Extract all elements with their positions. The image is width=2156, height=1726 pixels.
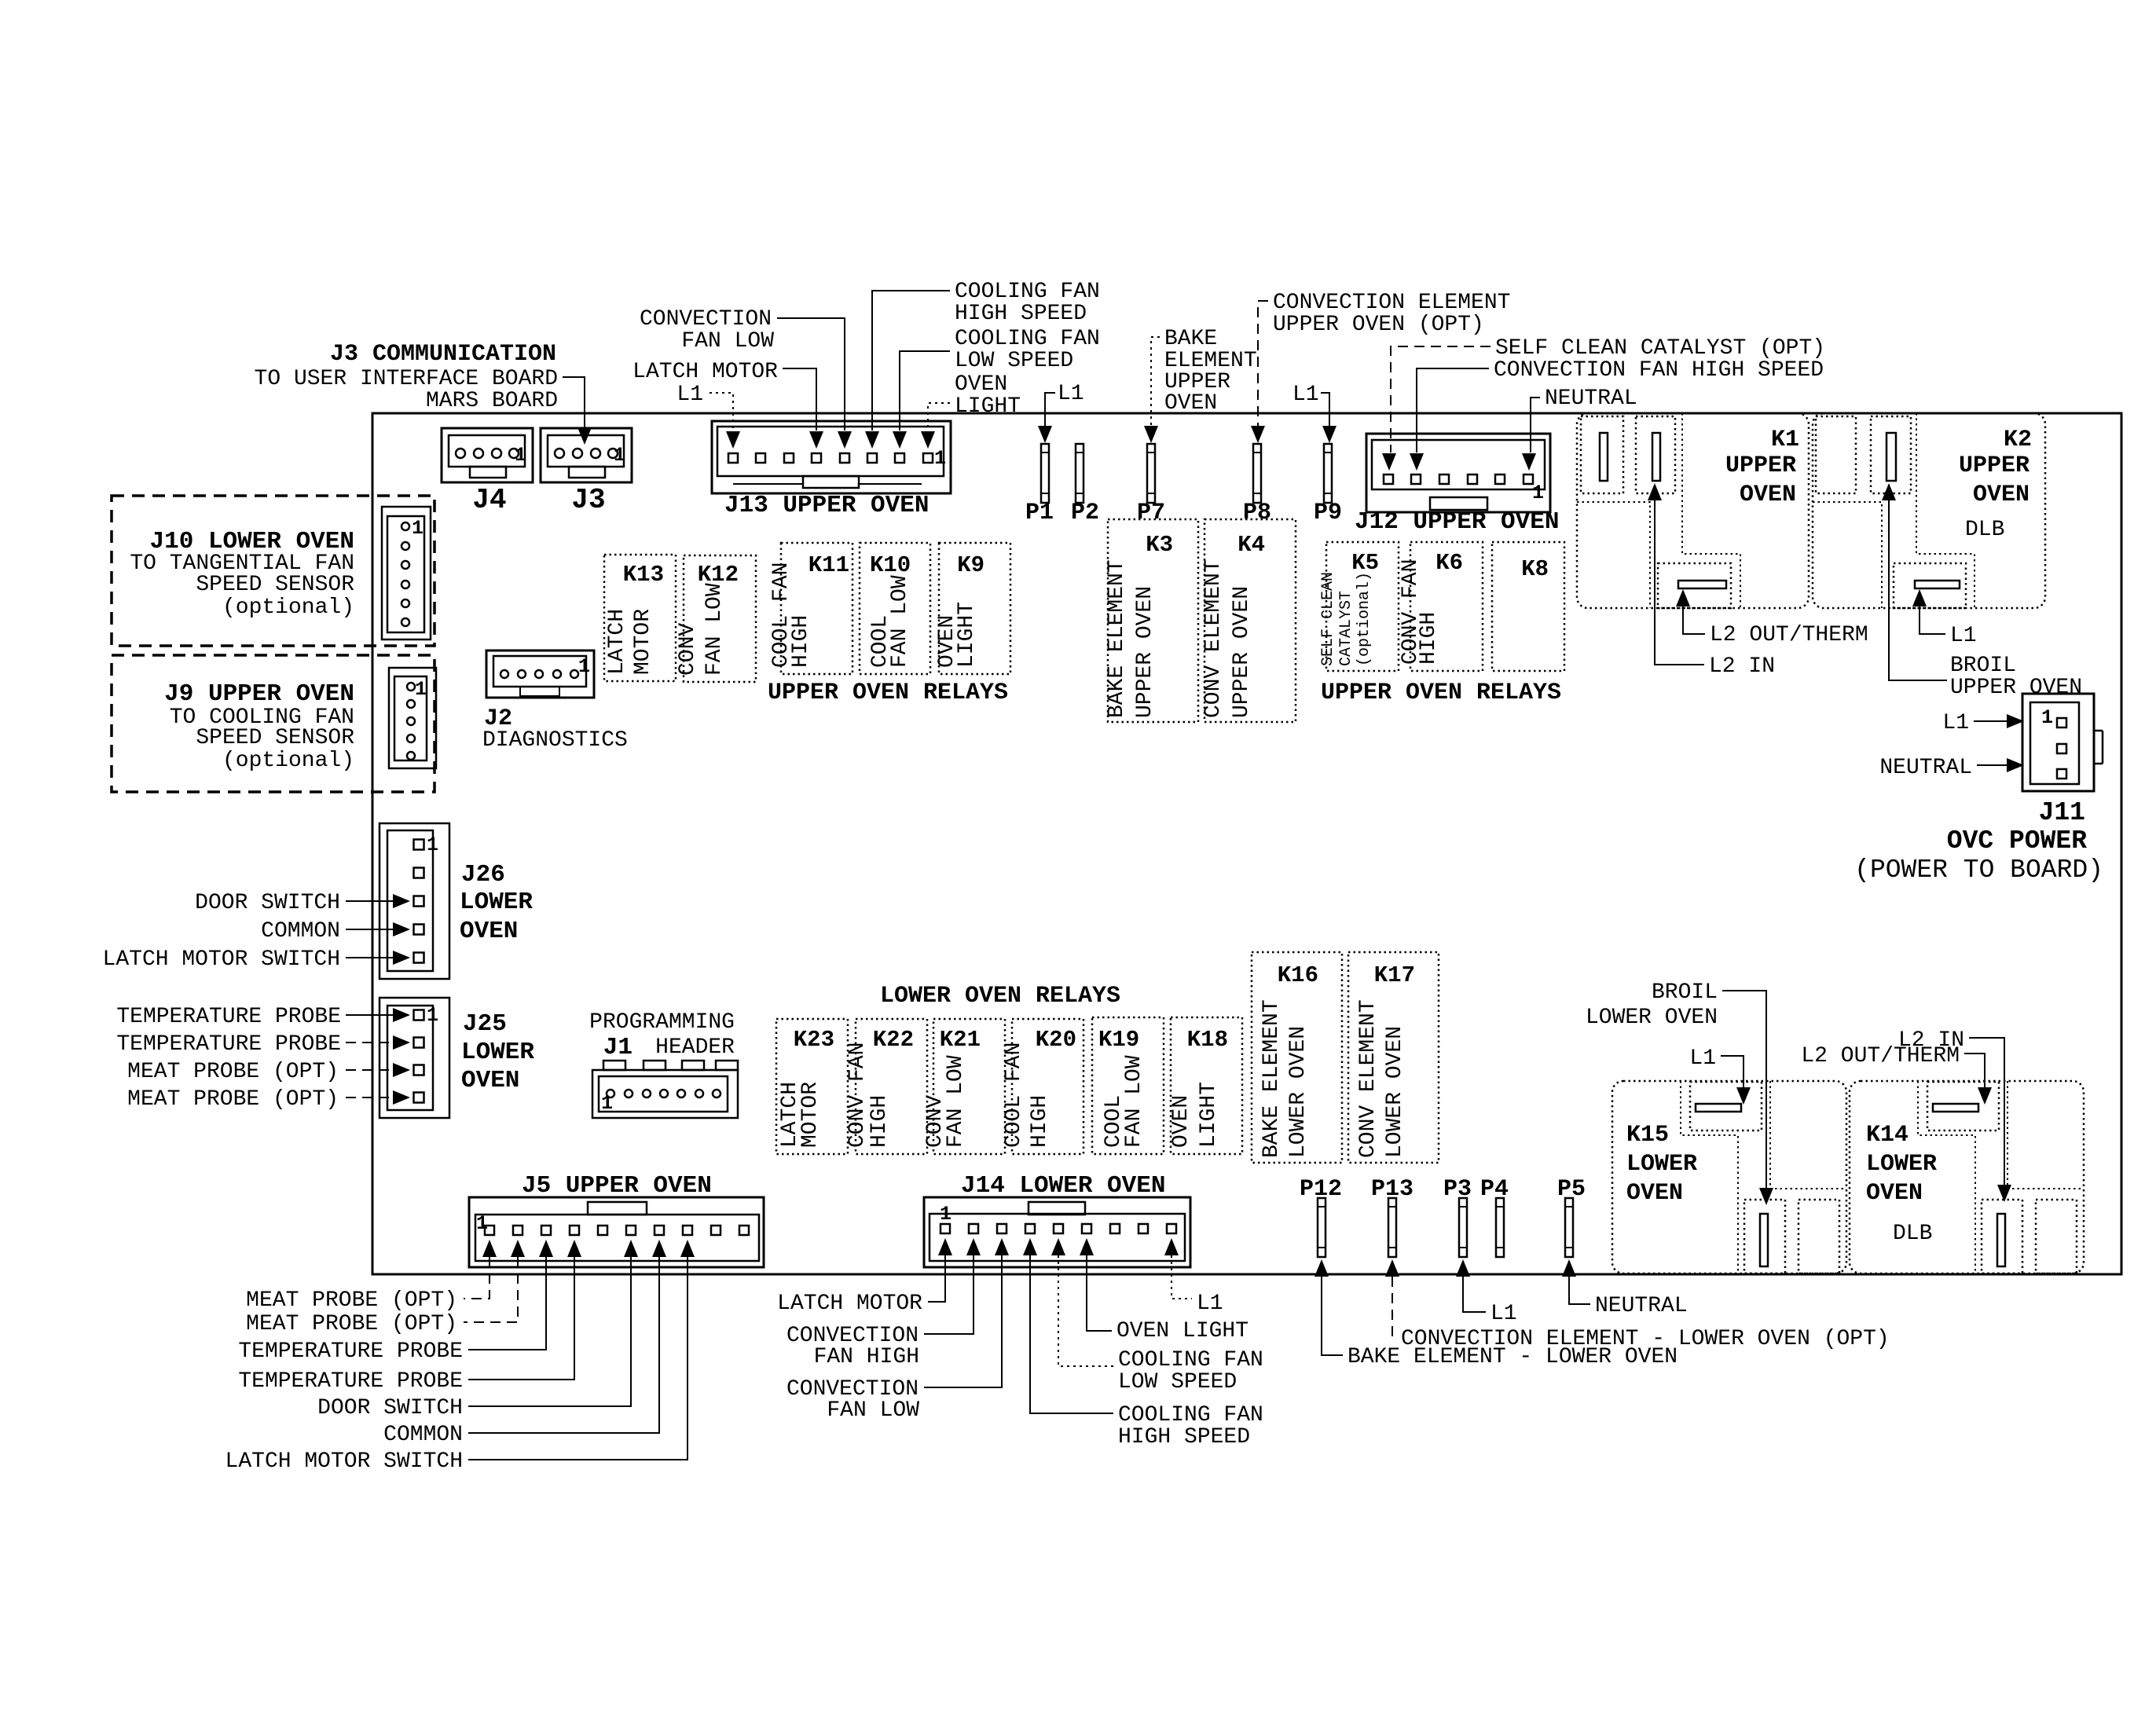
svg-text:1: 1 <box>578 655 590 678</box>
svg-text:P12: P12 <box>1300 1176 1342 1203</box>
svg-text:CONVECTION: CONVECTION <box>640 307 772 332</box>
svg-text:OVEN: OVEN <box>1740 482 1796 508</box>
svg-text:1: 1 <box>476 1212 488 1235</box>
svg-text:LOW SPEED: LOW SPEED <box>955 349 1073 373</box>
svg-text:HIGH: HIGH <box>1028 1095 1052 1148</box>
svg-text:(optional): (optional) <box>222 595 354 620</box>
svg-text:MEAT PROBE (OPT): MEAT PROBE (OPT) <box>127 1060 339 1084</box>
svg-text:SELF CLEAN: SELF CLEAN <box>1319 572 1337 666</box>
svg-text:UPPER OVEN RELAYS: UPPER OVEN RELAYS <box>768 680 1008 706</box>
svg-text:P4: P4 <box>1480 1176 1509 1203</box>
svg-text:1: 1 <box>515 444 526 467</box>
svg-text:1: 1 <box>2041 706 2053 729</box>
svg-text:K9: K9 <box>957 552 984 578</box>
svg-text:1: 1 <box>427 834 438 856</box>
svg-text:MARS BOARD: MARS BOARD <box>426 389 558 413</box>
svg-text:LOWER: LOWER <box>1866 1151 1937 1178</box>
test point P3 <box>1459 1198 1467 1257</box>
svg-text:1: 1 <box>934 447 946 470</box>
svg-text:P7: P7 <box>1137 500 1165 526</box>
svg-text:L2 OUT/THERM: L2 OUT/THERM <box>1710 623 1868 647</box>
svg-text:(optional): (optional) <box>222 749 354 773</box>
svg-text:K22: K22 <box>873 1027 914 1053</box>
svg-text:J12 UPPER OVEN: J12 UPPER OVEN <box>1355 508 1559 536</box>
svg-text:1: 1 <box>614 444 625 467</box>
svg-text:P1: P1 <box>1025 500 1054 526</box>
svg-text:UPPER OVEN: UPPER OVEN <box>1950 676 2082 700</box>
svg-text:TEMPERATURE PROBE: TEMPERATURE PROBE <box>116 1032 341 1057</box>
svg-text:BAKE ELEMENT: BAKE ELEMENT <box>1105 559 1129 718</box>
svg-text:K11: K11 <box>808 552 849 578</box>
svg-text:L1: L1 <box>1942 711 1969 735</box>
connector J2 DIAGNOSTICS <box>486 650 594 698</box>
svg-text:P2: P2 <box>1071 500 1099 526</box>
svg-text:DOOR SWITCH: DOOR SWITCH <box>195 891 340 915</box>
svg-text:K21: K21 <box>940 1027 981 1053</box>
relay K4 <box>1204 519 1296 722</box>
relay K11 <box>781 543 852 674</box>
connector J13 UPPER OVEN <box>712 421 951 493</box>
svg-text:LATCH MOTOR: LATCH MOTOR <box>632 360 778 384</box>
svg-text:UPPER OVEN RELAYS: UPPER OVEN RELAYS <box>1321 680 1561 706</box>
svg-text:K10: K10 <box>870 552 911 578</box>
svg-text:CATALYST: CATALYST <box>1337 591 1355 666</box>
svg-text:CONVECTION FAN HIGH SPEED: CONVECTION FAN HIGH SPEED <box>1494 358 1824 383</box>
svg-text:L2 IN: L2 IN <box>1898 1028 1964 1053</box>
svg-text:COOLING FAN: COOLING FAN <box>955 327 1100 351</box>
svg-text:J3 COMMUNICATION: J3 COMMUNICATION <box>330 341 556 368</box>
svg-text:HEADER: HEADER <box>655 1035 735 1060</box>
svg-text:K13: K13 <box>623 562 664 588</box>
board outline <box>372 413 2121 1274</box>
relay K14 LOWER OVEN <box>1850 1081 2084 1273</box>
relay K5 <box>1326 542 1399 671</box>
svg-text:LOW SPEED: LOW SPEED <box>1118 1370 1237 1394</box>
svg-text:OVEN: OVEN <box>1626 1180 1683 1207</box>
svg-text:K14: K14 <box>1866 1122 1908 1149</box>
svg-text:SPEED SENSOR: SPEED SENSOR <box>196 726 354 750</box>
connector J10 <box>382 507 431 639</box>
svg-text:CONV ELEMENT: CONV ELEMENT <box>1201 559 1226 718</box>
svg-text:CONV ELEMENT: CONV ELEMENT <box>1356 999 1380 1158</box>
relay K15 LOWER OVEN <box>1612 1081 1846 1273</box>
svg-text:CONV FAN: CONV FAN <box>845 1043 870 1148</box>
svg-text:K1: K1 <box>1771 427 1799 453</box>
svg-text:DOOR SWITCH: DOOR SWITCH <box>317 1396 463 1420</box>
svg-text:1: 1 <box>601 1092 613 1115</box>
svg-text:K8: K8 <box>1521 556 1549 582</box>
svg-text:OVEN: OVEN <box>460 918 518 945</box>
svg-text:LIGHT: LIGHT <box>955 394 1021 419</box>
test point P8 <box>1253 444 1261 503</box>
svg-text:L1: L1 <box>1292 383 1319 407</box>
connector J5 <box>469 1197 764 1267</box>
svg-text:FAN HIGH: FAN HIGH <box>814 1345 919 1369</box>
relay K1 UPPER OVEN <box>1577 413 1809 608</box>
test point P9 <box>1324 444 1332 503</box>
relay K2 UPPER OVEN <box>1813 413 2045 608</box>
relay K13 <box>604 555 676 681</box>
svg-text:OVEN: OVEN <box>461 1067 519 1094</box>
svg-text:OVEN: OVEN <box>1169 1095 1193 1148</box>
connector J12 UPPER OVEN <box>1366 434 1550 512</box>
test point P5 <box>1565 1198 1573 1257</box>
svg-text:(POWER TO BOARD): (POWER TO BOARD) <box>1854 856 2103 885</box>
svg-text:K15: K15 <box>1626 1122 1669 1149</box>
svg-text:L1: L1 <box>1950 624 1977 648</box>
svg-text:FAN LOW: FAN LOW <box>681 329 774 354</box>
svg-text:K18: K18 <box>1187 1027 1228 1053</box>
connector J4 <box>442 428 533 482</box>
svg-text:OVEN: OVEN <box>1973 482 2029 508</box>
svg-text:L2 IN: L2 IN <box>1709 654 1775 679</box>
connector J9 <box>389 668 436 768</box>
svg-text:LOWER OVEN RELAYS: LOWER OVEN RELAYS <box>880 983 1120 1010</box>
svg-text:SPEED SENSOR: SPEED SENSOR <box>196 573 354 597</box>
connector J26 LOWER OVEN <box>379 823 449 979</box>
relay K9 <box>939 543 1010 674</box>
connector J25 LOWER OVEN <box>379 998 449 1118</box>
svg-text:P5: P5 <box>1557 1176 1586 1203</box>
svg-text:MEAT PROBE (OPT): MEAT PROBE (OPT) <box>127 1087 339 1112</box>
svg-text:K17: K17 <box>1374 962 1415 988</box>
svg-text:(optional): (optional) <box>1355 572 1373 666</box>
svg-text:BROIL: BROIL <box>1950 654 2016 678</box>
svg-text:K16: K16 <box>1278 962 1318 988</box>
svg-text:LOWER: LOWER <box>460 889 533 916</box>
svg-text:LATCH MOTOR SWITCH: LATCH MOTOR SWITCH <box>225 1449 463 1474</box>
svg-text:COOL FAN: COOL FAN <box>1002 1043 1026 1148</box>
svg-text:J4: J4 <box>472 484 506 516</box>
svg-text:LOWER: LOWER <box>1626 1151 1697 1178</box>
relay K17 <box>1348 952 1439 1163</box>
svg-text:COOLING FAN: COOLING FAN <box>1118 1403 1263 1427</box>
svg-text:K6: K6 <box>1435 550 1463 576</box>
svg-text:P9: P9 <box>1314 500 1342 526</box>
svg-text:NEUTRAL: NEUTRAL <box>1879 756 1972 780</box>
svg-text:OVEN: OVEN <box>955 372 1007 397</box>
svg-text:J14 LOWER OVEN: J14 LOWER OVEN <box>961 1172 1165 1200</box>
svg-text:BAKE ELEMENT: BAKE ELEMENT <box>1259 999 1284 1158</box>
svg-text:LOWER OVEN: LOWER OVEN <box>1383 1026 1407 1158</box>
relay K23 <box>776 1019 848 1154</box>
svg-text:K20: K20 <box>1036 1027 1076 1053</box>
svg-text:J3: J3 <box>571 484 605 516</box>
svg-text:PROGRAMMING: PROGRAMMING <box>589 1010 735 1035</box>
svg-text:UPPER: UPPER <box>1725 453 1796 479</box>
svg-text:NEUTRAL: NEUTRAL <box>1545 387 1637 411</box>
svg-text:SELF CLEAN CATALYST (OPT): SELF CLEAN CATALYST (OPT) <box>1495 336 1825 361</box>
test point P4 <box>1496 1198 1504 1257</box>
svg-text:LIGHT: LIGHT <box>955 602 979 668</box>
connector J14 <box>924 1197 1190 1267</box>
svg-text:L1: L1 <box>1058 382 1084 406</box>
svg-text:J5 UPPER OVEN: J5 UPPER OVEN <box>522 1172 712 1200</box>
svg-text:J9 UPPER OVEN: J9 UPPER OVEN <box>164 680 354 708</box>
svg-text:UPPER OVEN (OPT): UPPER OVEN (OPT) <box>1273 313 1484 337</box>
svg-text:1: 1 <box>415 678 427 701</box>
svg-text:HIGH: HIGH <box>867 1095 892 1148</box>
svg-text:K3: K3 <box>1146 532 1173 558</box>
svg-text:MOTOR: MOTOR <box>798 1082 823 1148</box>
svg-text:DLB: DLB <box>1965 518 2004 542</box>
svg-text:L1: L1 <box>1689 1046 1716 1071</box>
svg-text:J11: J11 <box>2039 798 2085 827</box>
svg-text:FAN LOW: FAN LOW <box>702 583 727 676</box>
svg-text:TO USER INTERFACE BOARD: TO USER INTERFACE BOARD <box>255 367 558 391</box>
svg-text:UPPER OVEN: UPPER OVEN <box>1133 586 1157 718</box>
svg-text:FAN LOW: FAN LOW <box>1122 1055 1146 1148</box>
svg-text:J26: J26 <box>461 861 505 889</box>
svg-text:HIGH SPEED: HIGH SPEED <box>1118 1425 1250 1449</box>
connector J3 <box>541 428 632 482</box>
svg-text:COOLING FAN: COOLING FAN <box>955 280 1100 304</box>
relay K22 <box>856 1019 927 1154</box>
dashed box J9 UPPER OVEN <box>112 655 434 792</box>
svg-text:CONVECTION ELEMENT - LOWER OVE: CONVECTION ELEMENT - LOWER OVEN (OPT) <box>1401 1327 1890 1351</box>
svg-text:LATCH MOTOR SWITCH: LATCH MOTOR SWITCH <box>103 947 340 972</box>
svg-text:LOWER: LOWER <box>461 1039 534 1066</box>
svg-text:COMMON: COMMON <box>261 919 340 944</box>
relay K20 <box>1012 1019 1083 1154</box>
svg-text:HIGH: HIGH <box>1417 612 1441 665</box>
svg-text:LATCH MOTOR: LATCH MOTOR <box>777 1292 922 1316</box>
svg-text:P3: P3 <box>1443 1176 1472 1203</box>
svg-text:1: 1 <box>940 1203 951 1226</box>
relay K6 <box>1410 542 1483 671</box>
svg-text:BAKE: BAKE <box>1164 327 1217 351</box>
svg-text:P13: P13 <box>1371 1176 1413 1203</box>
svg-text:L1: L1 <box>1197 1292 1223 1316</box>
svg-text:LOWER OVEN: LOWER OVEN <box>1586 1006 1718 1030</box>
relay K19 <box>1092 1017 1164 1154</box>
svg-text:FAN LOW: FAN LOW <box>944 1055 968 1148</box>
svg-text:MOTOR: MOTOR <box>631 609 655 675</box>
svg-text:L1: L1 <box>1490 1302 1517 1326</box>
svg-text:MEAT PROBE (OPT): MEAT PROBE (OPT) <box>246 1312 457 1336</box>
svg-text:DLB: DLB <box>1893 1222 1932 1246</box>
svg-text:OVC POWER: OVC POWER <box>1947 826 2087 856</box>
svg-text:TEMPERATURE PROBE: TEMPERATURE PROBE <box>238 1369 463 1394</box>
svg-text:K2: K2 <box>2004 427 2032 453</box>
relay K10 <box>860 543 930 674</box>
relay K18 <box>1171 1017 1242 1154</box>
svg-text:J1: J1 <box>603 1034 632 1061</box>
svg-text:K23: K23 <box>794 1027 834 1053</box>
svg-text:LIGHT: LIGHT <box>1197 1082 1221 1148</box>
connector J11 OVC POWER <box>2022 694 2094 791</box>
svg-text:FAN LOW: FAN LOW <box>888 575 912 668</box>
svg-text:OVEN: OVEN <box>1164 391 1217 416</box>
svg-text:MEAT PROBE (OPT): MEAT PROBE (OPT) <box>246 1288 457 1313</box>
svg-text:TEMPERATURE PROBE: TEMPERATURE PROBE <box>238 1339 463 1364</box>
wire J3 communication leader <box>563 377 585 434</box>
svg-text:OVEN LIGHT: OVEN LIGHT <box>1116 1319 1248 1343</box>
svg-text:UPPER OVEN: UPPER OVEN <box>1230 586 1254 718</box>
test point P2 <box>1076 444 1083 503</box>
svg-text:COOLING FAN: COOLING FAN <box>1118 1348 1263 1372</box>
dashed box J10 LOWER OVEN <box>112 496 434 646</box>
svg-text:COMMON: COMMON <box>383 1423 463 1447</box>
svg-text:FAN LOW: FAN LOW <box>827 1398 919 1423</box>
svg-text:P8: P8 <box>1243 500 1271 526</box>
svg-text:HIGH SPEED: HIGH SPEED <box>955 302 1087 326</box>
svg-text:OVEN: OVEN <box>1866 1180 1923 1207</box>
svg-text:HIGH: HIGH <box>789 615 813 668</box>
svg-text:UPPER: UPPER <box>1959 453 2029 479</box>
test point P7 <box>1147 444 1155 503</box>
svg-text:LATCH: LATCH <box>605 609 629 675</box>
svg-text:CONV: CONV <box>676 623 700 676</box>
svg-text:LOWER OVEN: LOWER OVEN <box>1286 1026 1311 1158</box>
svg-text:K19: K19 <box>1098 1027 1139 1053</box>
relay K8 <box>1492 542 1564 671</box>
svg-text:1: 1 <box>427 1004 438 1027</box>
relay K3 <box>1108 519 1198 722</box>
svg-text:DIAGNOSTICS: DIAGNOSTICS <box>482 728 628 753</box>
test point P13 <box>1388 1198 1396 1257</box>
relay K12 <box>684 555 756 682</box>
svg-text:J25: J25 <box>463 1010 507 1038</box>
relay K16 <box>1252 952 1342 1163</box>
svg-text:1: 1 <box>1532 482 1544 504</box>
svg-text:BROIL: BROIL <box>1652 980 1718 1005</box>
svg-text:L1: L1 <box>676 383 703 407</box>
svg-text:J13 UPPER OVEN: J13 UPPER OVEN <box>724 492 929 519</box>
relay K21 <box>933 1019 1005 1154</box>
test point P12 <box>1318 1198 1325 1257</box>
svg-text:1: 1 <box>412 517 423 540</box>
svg-text:NEUTRAL: NEUTRAL <box>1595 1294 1688 1318</box>
svg-text:K4: K4 <box>1237 532 1265 558</box>
svg-text:CONVECTION ELEMENT: CONVECTION ELEMENT <box>1273 291 1510 315</box>
test point P1 <box>1041 444 1049 503</box>
svg-text:TEMPERATURE PROBE: TEMPERATURE PROBE <box>116 1005 341 1029</box>
